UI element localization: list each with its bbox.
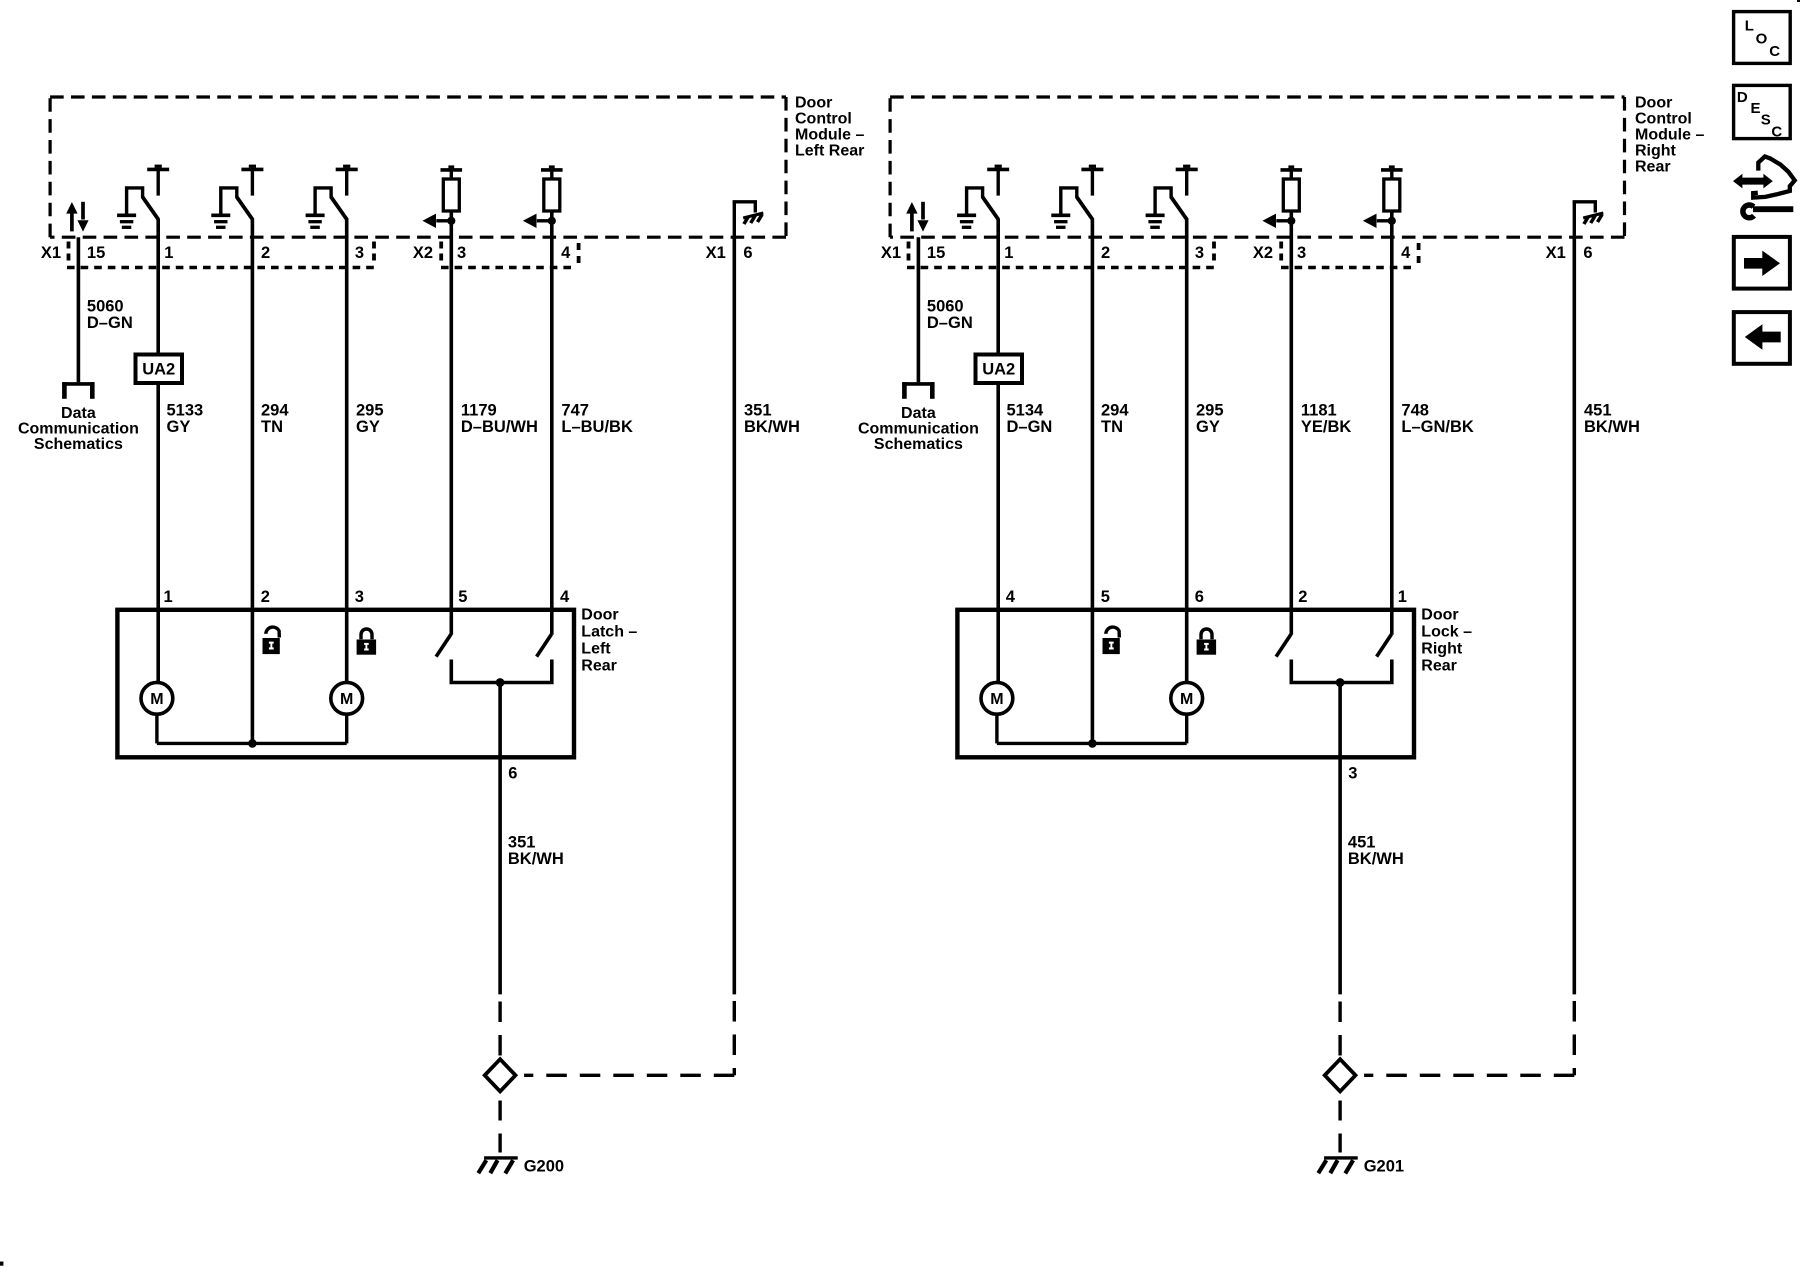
svg-text:D–GN: D–GN bbox=[87, 314, 133, 332]
wire: circuit X2-4 to latch switch bbox=[550, 211, 554, 635]
svg-text:6: 6 bbox=[1195, 588, 1204, 606]
indicator: closed padlock (lock) bbox=[1197, 629, 1217, 655]
svg-text:2: 2 bbox=[1101, 244, 1110, 262]
internal ground pin X1-6 bbox=[733, 202, 764, 236]
wire: dashed splice to ground bbox=[1338, 1101, 1341, 1153]
svg-text:3: 3 bbox=[1297, 244, 1306, 262]
svg-text:Left Rear: Left Rear bbox=[795, 143, 864, 160]
label: circuit 1179 D-BU/WH bbox=[461, 402, 538, 436]
wire: ground circuit from pin X1-6 (solid) bbox=[1573, 237, 1577, 994]
svg-text:TN: TN bbox=[1101, 418, 1123, 436]
indicator: open padlock (unlock) bbox=[1103, 627, 1120, 654]
splice S1 bbox=[485, 1059, 516, 1091]
svg-text:UA2: UA2 bbox=[982, 361, 1015, 379]
sensing resistor pin X2-4 bbox=[1363, 165, 1403, 228]
svg-text:UA2: UA2 bbox=[142, 361, 175, 379]
wire: dashed splice horizontal run bbox=[1364, 1074, 1574, 1077]
svg-text:YE/BK: YE/BK bbox=[1301, 418, 1352, 436]
label: circuit 295 GY bbox=[1196, 402, 1224, 436]
label: circuit 294 TN bbox=[1101, 402, 1129, 436]
svg-text:351: 351 bbox=[508, 834, 536, 852]
sensing resistor pin X2-3 bbox=[422, 165, 462, 228]
svg-text:D: D bbox=[1737, 89, 1748, 106]
svg-text:Left: Left bbox=[581, 641, 611, 658]
label: Door Control Module - Right Rear bbox=[1635, 95, 1704, 176]
svg-text:Control: Control bbox=[1635, 111, 1692, 128]
svg-text:X2: X2 bbox=[413, 244, 433, 262]
svg-text:Schematics: Schematics bbox=[34, 436, 123, 453]
off-page reference: data communication schematics bbox=[62, 382, 94, 399]
wire: dashed to splice diamond bbox=[498, 1002, 501, 1058]
wire: dashed ground run to splice bbox=[733, 1001, 736, 1075]
ground G201 bbox=[1318, 1158, 1357, 1174]
svg-text:X1: X1 bbox=[706, 244, 726, 262]
svg-text:294: 294 bbox=[1101, 402, 1129, 420]
svg-text:3: 3 bbox=[355, 244, 364, 262]
module: Door Control Module - Right Rear (dashed outline) bbox=[890, 97, 1624, 237]
svg-text:L–BU/BK: L–BU/BK bbox=[561, 418, 633, 436]
svg-text:D–GN: D–GN bbox=[927, 314, 973, 332]
switch common contact with junction bbox=[1291, 660, 1392, 683]
wire: circuit 5134 pin 1 to latch motor bbox=[996, 219, 1000, 683]
svg-text:295: 295 bbox=[356, 402, 384, 420]
svg-text:1: 1 bbox=[164, 588, 173, 606]
internal bus with junction dot bbox=[997, 739, 1187, 748]
svg-text:3: 3 bbox=[457, 244, 466, 262]
svg-text:BK/WH: BK/WH bbox=[744, 418, 800, 436]
svg-text:4: 4 bbox=[560, 588, 570, 606]
nav icon: forward arrow button bbox=[1734, 237, 1790, 289]
label: circuit 351 BK/WH bbox=[744, 402, 800, 436]
component box: Door Latch - Left Rear bbox=[117, 610, 574, 758]
driver switch pin 3 bbox=[1146, 165, 1198, 228]
module: Door Control Module - Left Rear (dashed outline) bbox=[50, 97, 786, 237]
svg-text:G201: G201 bbox=[1364, 1158, 1404, 1176]
wire: motor 1 to bus bbox=[995, 714, 998, 744]
svg-text:5060: 5060 bbox=[87, 298, 124, 316]
svg-text:5: 5 bbox=[458, 588, 467, 606]
svg-text:3: 3 bbox=[1348, 764, 1357, 782]
label: circuit 5133/GY bbox=[167, 402, 204, 436]
wire: motor 2 to bus bbox=[345, 714, 348, 744]
nav icon: DESC button bbox=[1734, 85, 1791, 138]
wire: dashed ground run to splice bbox=[1573, 1001, 1576, 1075]
svg-text:Door: Door bbox=[1635, 95, 1672, 112]
svg-text:4: 4 bbox=[561, 244, 571, 262]
svg-text:6: 6 bbox=[743, 244, 752, 262]
svg-text:E: E bbox=[1751, 100, 1761, 117]
label: circuit 747 L-BU/BK bbox=[561, 402, 633, 436]
label: Door Latch - Left Rear bbox=[581, 607, 637, 675]
svg-text:294: 294 bbox=[261, 402, 289, 420]
svg-text:L: L bbox=[1745, 18, 1754, 35]
component box: Door Lock - Right Rear bbox=[957, 610, 1414, 758]
serial data bidirectional arrows (pin X1-15) bbox=[66, 202, 88, 232]
page artifact: bottom-left speck bbox=[0, 1262, 3, 1266]
svg-text:1181: 1181 bbox=[1301, 402, 1337, 420]
label: circuit 451 BK/WH (lower) bbox=[1348, 834, 1404, 868]
nav icon: LOC button bbox=[1734, 12, 1791, 64]
svg-text:X1: X1 bbox=[1546, 244, 1566, 262]
svg-text:Latch –: Latch – bbox=[581, 624, 637, 641]
wire: circuit X2-4 to latch switch bbox=[1390, 211, 1394, 635]
svg-text:1179: 1179 bbox=[461, 402, 497, 420]
driver switch pin 3 bbox=[306, 165, 358, 228]
svg-text:O: O bbox=[1756, 31, 1768, 48]
svg-text:TN: TN bbox=[261, 418, 283, 436]
svg-text:Schematics: Schematics bbox=[874, 436, 963, 453]
svg-text:Door: Door bbox=[795, 95, 832, 112]
svg-text:Rear: Rear bbox=[1421, 658, 1457, 675]
wire: serial data circuit 5060 (pin X1-15) bbox=[77, 237, 81, 382]
svg-text:3: 3 bbox=[1195, 244, 1204, 262]
connector X2 strip bbox=[1281, 242, 1419, 268]
nav icon: connector end view (arrows + wrench) bbox=[1733, 157, 1795, 218]
svg-text:Module –: Module – bbox=[795, 127, 864, 144]
nav icon: back arrow button bbox=[1734, 312, 1790, 364]
off-page reference: data communication schematics bbox=[902, 382, 934, 399]
wire: dashed splice to ground bbox=[498, 1101, 501, 1153]
svg-text:X1: X1 bbox=[41, 244, 61, 262]
switch blade (left) bbox=[1276, 634, 1291, 656]
RPO code box UA2 bbox=[976, 355, 1023, 384]
svg-text:Door: Door bbox=[1421, 607, 1458, 624]
svg-text:D–BU/WH: D–BU/WH bbox=[461, 418, 538, 436]
svg-text:2: 2 bbox=[261, 588, 270, 606]
switch blade (left) bbox=[436, 634, 451, 656]
wire: dashed to splice diamond bbox=[1338, 1002, 1341, 1058]
svg-text:Rear: Rear bbox=[1635, 159, 1671, 176]
connector X1 strip bbox=[907, 242, 1214, 268]
label: circuit 748 L-GN/BK bbox=[1401, 402, 1474, 436]
sensing resistor pin X2-4 bbox=[523, 165, 563, 228]
svg-text:6: 6 bbox=[1583, 244, 1592, 262]
switch blade (right) bbox=[537, 634, 552, 656]
wire: motor 1 to bus bbox=[155, 714, 158, 744]
internal ground pin X1-6 bbox=[1573, 202, 1604, 236]
svg-text:2: 2 bbox=[261, 244, 270, 262]
svg-text:4: 4 bbox=[1401, 244, 1411, 262]
svg-text:5: 5 bbox=[1101, 588, 1110, 606]
wire: circuit 295 pin 3 to latch motor bbox=[345, 219, 349, 683]
label: Door Control Module - Left Rear bbox=[795, 95, 864, 160]
label: circuit 295 GY bbox=[356, 402, 384, 436]
motor M (Door Latch - Left Rear unlock) bbox=[141, 682, 173, 714]
motor M (Door Lock - Right Rear unlock) bbox=[981, 682, 1013, 714]
wire: circuit 295 pin 3 to latch motor bbox=[1185, 219, 1189, 683]
svg-text:Rear: Rear bbox=[581, 658, 617, 675]
svg-text:X2: X2 bbox=[1253, 244, 1273, 262]
svg-text:4: 4 bbox=[1006, 588, 1016, 606]
svg-text:GY: GY bbox=[167, 418, 191, 436]
wire: circuit 5133 pin 1 to latch motor bbox=[156, 219, 160, 683]
label: circuit 294 TN bbox=[261, 402, 289, 436]
wire: motor 2 to bus bbox=[1185, 714, 1188, 744]
switch blade (right) bbox=[1377, 634, 1392, 656]
svg-text:1: 1 bbox=[1398, 588, 1407, 606]
wire: circuit X2-3 to latch switch bbox=[449, 211, 453, 635]
svg-text:451: 451 bbox=[1348, 834, 1376, 852]
RPO code box UA2 bbox=[136, 355, 183, 384]
indicator: open padlock (unlock) bbox=[263, 627, 280, 654]
svg-text:GY: GY bbox=[356, 418, 380, 436]
svg-text:15: 15 bbox=[87, 244, 105, 262]
svg-text:X1: X1 bbox=[881, 244, 901, 262]
svg-text:748: 748 bbox=[1401, 402, 1429, 420]
serial data bidirectional arrows (pin X1-15) bbox=[906, 202, 928, 232]
wire: latch common to splice (solid) bbox=[1338, 683, 1342, 995]
internal bus with junction dot bbox=[157, 739, 347, 748]
wire: circuit 294 pin 2 to latch bus bbox=[1091, 219, 1095, 743]
svg-text:Right: Right bbox=[1635, 143, 1677, 160]
svg-text:Module –: Module – bbox=[1635, 127, 1704, 144]
svg-text:15: 15 bbox=[927, 244, 945, 262]
splice S2 bbox=[1325, 1059, 1356, 1091]
label: circuit 351 BK/WH (lower) bbox=[508, 834, 564, 868]
motor M (Door Latch - Left Rear lock) bbox=[331, 682, 363, 714]
wire: ground circuit from pin X1-6 (solid) bbox=[732, 237, 736, 994]
svg-text:L–GN/BK: L–GN/BK bbox=[1401, 418, 1474, 436]
connector X2 strip bbox=[441, 242, 579, 268]
svg-text:Right: Right bbox=[1421, 641, 1463, 658]
svg-text:C: C bbox=[1769, 43, 1780, 60]
svg-text:BK/WH: BK/WH bbox=[1584, 418, 1640, 436]
switch common contact with junction bbox=[451, 660, 552, 683]
svg-text:C: C bbox=[1771, 124, 1782, 141]
svg-text:3: 3 bbox=[355, 588, 364, 606]
svg-text:747: 747 bbox=[561, 402, 589, 420]
driver switch pin 2 bbox=[211, 165, 263, 228]
svg-text:S: S bbox=[1761, 112, 1771, 129]
svg-text:295: 295 bbox=[1196, 402, 1224, 420]
driver switch pin 1 bbox=[957, 165, 1009, 228]
label: Data Communication Schematics bbox=[18, 405, 139, 453]
svg-text:Lock –: Lock – bbox=[1421, 624, 1472, 641]
svg-text:5060: 5060 bbox=[927, 298, 964, 316]
svg-text:6: 6 bbox=[508, 764, 517, 782]
svg-text:5133: 5133 bbox=[167, 402, 204, 420]
svg-text:BK/WH: BK/WH bbox=[1348, 850, 1404, 868]
svg-text:D–GN: D–GN bbox=[1007, 418, 1053, 436]
label: circuit 5134/D&#8211;GN bbox=[1007, 402, 1053, 436]
label: circuit 1181 YE/BK bbox=[1301, 402, 1352, 436]
wire: circuit X2-3 to latch switch bbox=[1290, 211, 1294, 635]
svg-text:BK/WH: BK/WH bbox=[508, 850, 564, 868]
wire: dashed splice horizontal run bbox=[524, 1074, 734, 1077]
svg-text:2: 2 bbox=[1298, 588, 1307, 606]
svg-text:1: 1 bbox=[164, 244, 173, 262]
driver switch pin 2 bbox=[1051, 165, 1103, 228]
svg-text:351: 351 bbox=[744, 402, 772, 420]
svg-text:G200: G200 bbox=[524, 1158, 564, 1176]
ground G200 bbox=[478, 1158, 517, 1174]
label: circuit 5060 D-GN bbox=[87, 298, 133, 332]
svg-text:1: 1 bbox=[1004, 244, 1013, 262]
indicator: closed padlock (lock) bbox=[357, 629, 377, 655]
svg-text:Control: Control bbox=[795, 111, 852, 128]
driver switch pin 1 bbox=[117, 165, 169, 228]
svg-text:451: 451 bbox=[1584, 402, 1612, 420]
label: circuit 5060 D-GN bbox=[927, 298, 973, 332]
label: circuit 451 BK/WH bbox=[1584, 402, 1640, 436]
svg-text:Door: Door bbox=[581, 607, 618, 624]
sensing resistor pin X2-3 bbox=[1262, 165, 1302, 228]
svg-text:GY: GY bbox=[1196, 418, 1220, 436]
wire: serial data circuit 5060 (pin X1-15) bbox=[917, 237, 921, 382]
label: Door Lock - Right Rear bbox=[1421, 607, 1472, 675]
svg-text:5134: 5134 bbox=[1007, 402, 1045, 420]
connector X1 strip bbox=[67, 242, 374, 268]
page artifact: top-right speck bbox=[1797, 0, 1800, 2]
wire: latch common to splice (solid) bbox=[498, 683, 502, 995]
label: Data Communication Schematics bbox=[858, 405, 979, 453]
motor M (Door Lock - Right Rear lock) bbox=[1171, 682, 1203, 714]
wire: circuit 294 pin 2 to latch bus bbox=[251, 219, 255, 743]
